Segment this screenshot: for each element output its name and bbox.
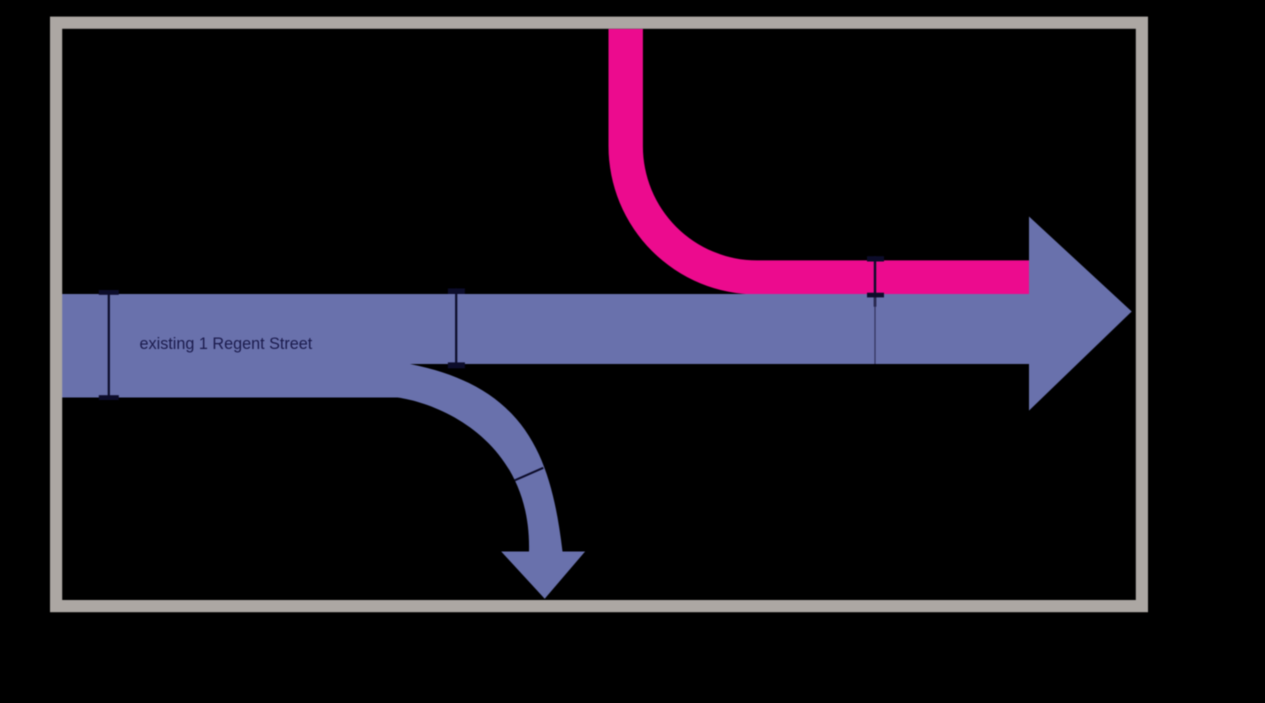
right arrowhead (1029, 217, 1132, 411)
thin node line through purple band under tick 3 (874, 297, 876, 364)
gray frame border (56, 23, 1142, 606)
tick node 1 (99, 290, 119, 400)
divider line across down branch (515, 468, 544, 481)
pink flow band (from top, quarter turn to the right) (609, 29, 1030, 295)
tick node 3 (on pink band) (867, 256, 884, 307)
tick node 2 (448, 288, 465, 368)
svg-text:existing 1 Regent Street: existing 1 Regent Street (140, 335, 313, 353)
purple main flow band + down branch (62, 294, 1029, 599)
